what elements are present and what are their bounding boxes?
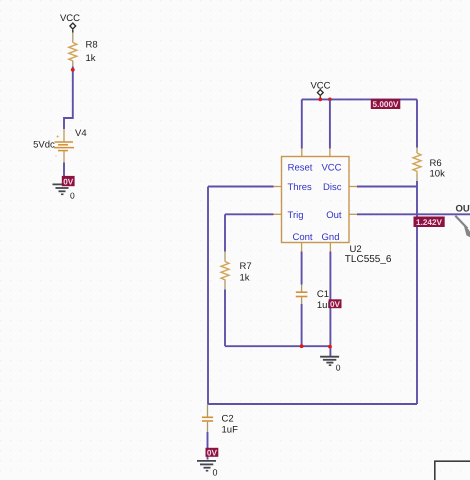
- svg-text:-: -: [55, 154, 57, 160]
- ground 0 (under Gnd pin): [320, 357, 341, 373]
- capacitor C2: [202, 404, 213, 432]
- ground 0 (under V4): [53, 184, 76, 200]
- bias label 0V (C1 node): [329, 299, 342, 309]
- svg-text:Disc: Disc: [323, 182, 342, 193]
- svg-text:1uF: 1uF: [222, 425, 239, 436]
- ground 0 (under C2): [197, 461, 218, 478]
- node VCC (top power symbol): [310, 81, 330, 100]
- svg-text:0: 0: [213, 468, 218, 478]
- wire Thres down to bottom rail: [207, 187, 209, 405]
- svg-text:V4: V4: [75, 128, 87, 139]
- wire C2 to ground: [207, 432, 209, 460]
- svg-text:TLC555_6: TLC555_6: [345, 254, 392, 265]
- svg-text:R7: R7: [240, 261, 252, 272]
- svg-text:Trig: Trig: [288, 210, 304, 221]
- junction dot: [71, 68, 75, 72]
- resistor R7: [221, 252, 229, 290]
- wire R6 down to bottom rail: [416, 181, 418, 404]
- svg-text:VCC: VCC: [60, 13, 80, 24]
- wire Disc to R6: [357, 186, 417, 188]
- svg-text:Out: Out: [326, 210, 342, 221]
- junction dot: [318, 98, 322, 102]
- svg-text:1k: 1k: [86, 53, 96, 64]
- svg-text:VCC: VCC: [321, 163, 341, 174]
- svg-text:Reset: Reset: [288, 163, 313, 174]
- wire C1 down to gnd rail: [301, 304, 303, 346]
- bias label 0V (V4 minus): [62, 176, 75, 186]
- svg-text:5Vdc: 5Vdc: [33, 139, 55, 150]
- pin VCC (top stub): [329, 149, 331, 157]
- pin Disc (right stub): [349, 186, 357, 188]
- wire Gnd pin down: [329, 252, 331, 357]
- pin Trig (left stub): [274, 213, 282, 215]
- svg-text:0V: 0V: [207, 448, 218, 457]
- wire rail to VCC pin: [329, 99, 331, 148]
- svg-text:0: 0: [336, 363, 341, 373]
- svg-text:OUT: OUT: [456, 204, 470, 215]
- svg-text:0V: 0V: [63, 177, 74, 186]
- wire Cont down: [301, 252, 303, 285]
- wire VCC rail: [302, 98, 417, 100]
- svg-text:R8: R8: [86, 40, 98, 51]
- probe marker at OUT: [455, 216, 470, 239]
- junction dot: [300, 344, 304, 348]
- wire bottom rail: [208, 403, 417, 405]
- bias label 5.000V: [371, 99, 401, 109]
- resistor R6: [413, 148, 421, 182]
- svg-text:5.000V: 5.000V: [373, 100, 399, 109]
- junction dot: [328, 345, 332, 349]
- svg-text:Gnd: Gnd: [322, 232, 340, 243]
- wire Trig left: [225, 213, 274, 215]
- IC U2 TLC555_6 body: [282, 157, 350, 243]
- svg-text:C2: C2: [222, 413, 234, 424]
- svg-text:1k: 1k: [240, 273, 250, 284]
- pin Out (right stub): [349, 213, 357, 215]
- wire VCC rail down to R6: [416, 99, 418, 147]
- pin Gnd (bottom stub): [329, 243, 331, 252]
- svg-text:C1: C1: [317, 289, 329, 300]
- junction dot: [328, 98, 332, 102]
- svg-text:0V: 0V: [330, 300, 341, 309]
- wire R8 to V4: [64, 67, 73, 130]
- svg-text:10k: 10k: [430, 168, 446, 179]
- bias label 0V (C2 node): [206, 448, 219, 458]
- pin Cont (bottom stub): [301, 243, 303, 252]
- wire rail to Reset pin: [301, 99, 303, 148]
- resistor R8: [69, 33, 77, 68]
- pin Thres (left stub): [274, 186, 282, 188]
- wire Trig down to R7: [224, 214, 226, 251]
- wire gnd rail horizontal: [225, 345, 330, 347]
- svg-text:1.242V: 1.242V: [416, 218, 442, 227]
- node VCC (left power symbol): [60, 13, 80, 33]
- svg-text:+: +: [56, 135, 60, 141]
- pin Reset (top stub): [301, 149, 303, 157]
- wire Thres left: [208, 186, 274, 188]
- capacitor C1: [296, 285, 308, 305]
- wire Out to OUT marker: [357, 213, 470, 215]
- voltage source V4 5Vdc: [54, 129, 74, 163]
- bias label 1.242V: [414, 217, 445, 228]
- svg-text:Cont: Cont: [292, 232, 312, 243]
- wire V4 to ground: [63, 163, 65, 185]
- svg-text:Thres: Thres: [288, 182, 313, 193]
- title block corner: [435, 461, 470, 480]
- wire R7 down to gnd rail: [224, 290, 226, 347]
- svg-text:0: 0: [70, 191, 75, 201]
